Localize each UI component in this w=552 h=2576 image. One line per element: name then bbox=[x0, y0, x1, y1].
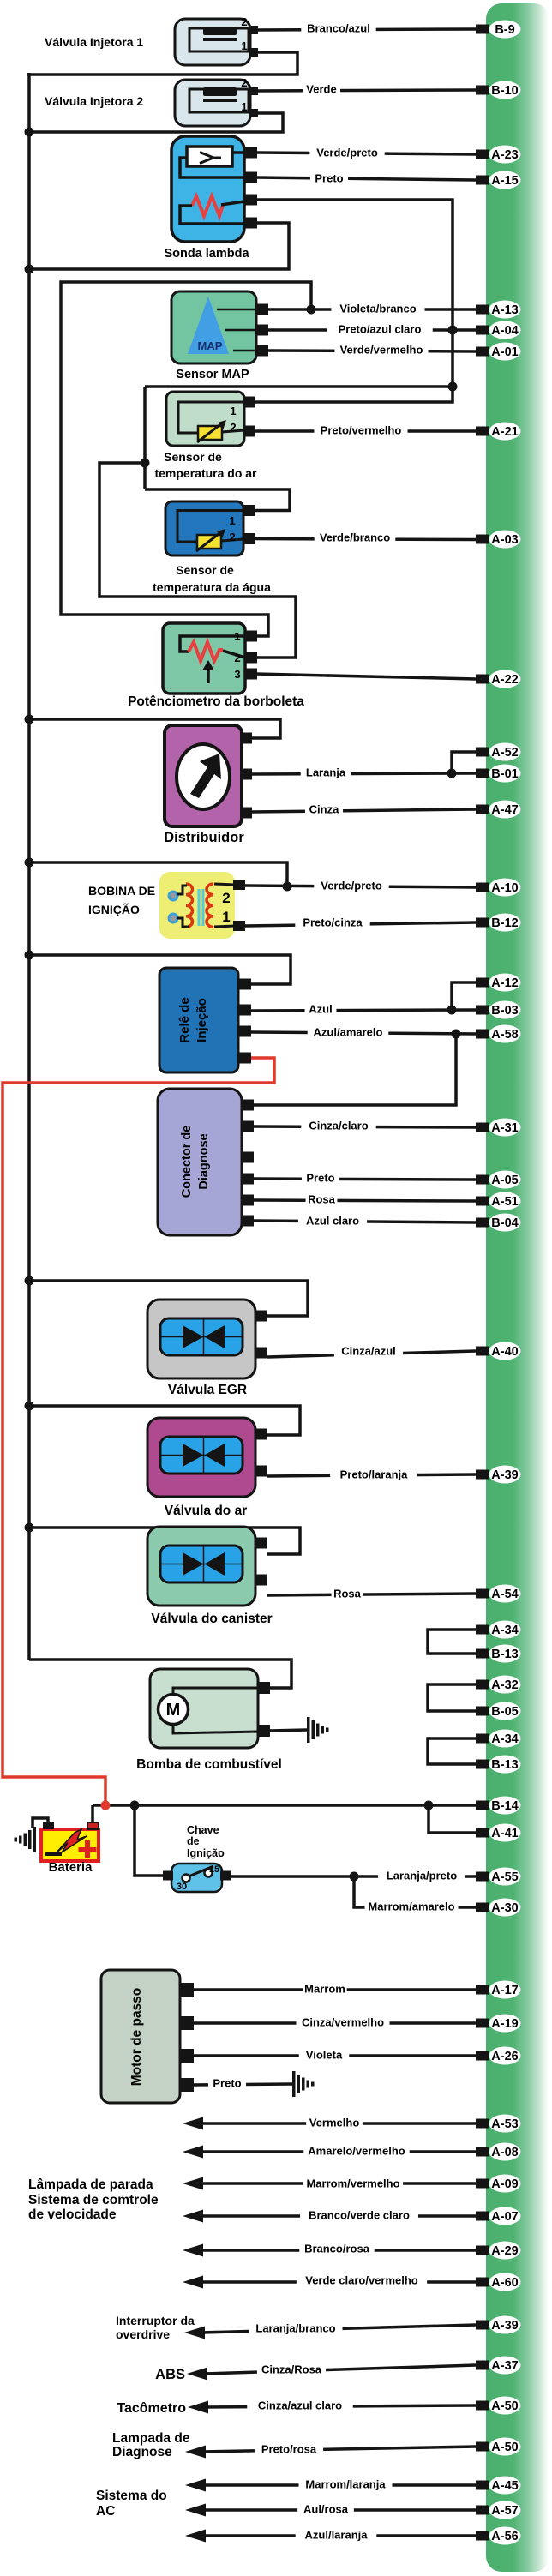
svg-text:Laranja: Laranja bbox=[306, 766, 346, 779]
junction bus / distribuidor bbox=[25, 715, 34, 724]
node A-05 (ECU pin) bbox=[476, 1175, 489, 1185]
bottom pin of bomba bbox=[258, 1725, 270, 1737]
node A-40 (ECU pin) bbox=[476, 1347, 489, 1356]
wire Sonda lambda pin 4 to bus bbox=[29, 223, 289, 269]
wire Conector pin 6 to B-04 (Azul claro) bbox=[253, 1221, 476, 1222]
svg-text:1: 1 bbox=[241, 100, 247, 113]
wire A-58 branch down to Conector pin 1 bbox=[253, 1034, 456, 1105]
wire label Azul/amarelo bbox=[308, 1025, 389, 1039]
svg-text:B-12: B-12 bbox=[491, 916, 518, 930]
battery bolt symbol bbox=[55, 1829, 87, 1854]
wire label Cinza/claro bbox=[301, 1119, 375, 1132]
wire Motor de passo pin 1 to A-17 (Marrom) bbox=[192, 1988, 476, 1991]
wire Valvula do ar bottom pin to A-39 (Preto/laranja) bbox=[267, 1474, 476, 1476]
wire x169 net bottom to water temp pin 1 bbox=[145, 489, 290, 511]
pin 6 of conector de diagnose bbox=[242, 1216, 254, 1227]
wire label Preto bbox=[302, 1171, 339, 1185]
wire Bobina pin 2 to A-10 (Verde/preto) bbox=[245, 886, 476, 887]
component Potenciometro da borboleta (throttle potentiometer) bbox=[163, 623, 245, 694]
node B-9 (ECU pin) bbox=[476, 25, 489, 34]
right pin of chave bbox=[220, 1871, 231, 1881]
junction x528 / x169 net bbox=[448, 382, 458, 392]
wire Valvula EGR bottom pin to A-40 (Cinza/azul) bbox=[267, 1351, 476, 1357]
svg-text:B-01: B-01 bbox=[491, 767, 518, 781]
svg-text:Verde/preto: Verde/preto bbox=[321, 880, 382, 892]
node A-34 (ECU pin) bbox=[476, 1734, 489, 1744]
node A-29 (ECU pin) bbox=[476, 2246, 489, 2255]
wire bus to Rele pin 1 bbox=[29, 955, 291, 984]
svg-text:B-03: B-03 bbox=[491, 1004, 518, 1018]
svg-text:Sensor de: Sensor de bbox=[164, 450, 222, 464]
svg-text:A-22: A-22 bbox=[491, 673, 518, 687]
pin 2 of sensor MAP bbox=[256, 325, 268, 336]
svg-text:A-54: A-54 bbox=[491, 1588, 518, 1601]
top pin of Válvula do canister bbox=[255, 1538, 267, 1549]
svg-text:Preto/azul claro: Preto/azul claro bbox=[339, 323, 422, 336]
component Rele de Injecao (injection relay) bbox=[159, 968, 238, 1072]
component Distribuidor (distributor) bbox=[165, 725, 242, 826]
node A-21 (ECU pin) bbox=[476, 427, 489, 436]
wire x117 branch to potentiometer pin 2 bbox=[99, 463, 296, 658]
component Válvula Injetora 1 bbox=[175, 19, 250, 65]
valve bowtie symbol (Válvula do canister) bbox=[183, 1552, 204, 1576]
wire label Amarelo/vermelho bbox=[303, 2144, 409, 2158]
wire Distribuidor pin 3 to A-47 (Cinza) bbox=[252, 809, 476, 812]
component Bobina de Ignicao (ignition coil) bbox=[159, 872, 235, 939]
junction bus / canister feed bbox=[25, 1523, 34, 1533]
wire label Verde/vermelho bbox=[334, 343, 428, 357]
bottom pin of Válvula EGR bbox=[255, 1348, 267, 1359]
svg-text:A-07: A-07 bbox=[491, 2210, 518, 2224]
pin 3 of sensor MAP bbox=[256, 345, 268, 357]
svg-text:A-57: A-57 bbox=[491, 2504, 518, 2518]
svg-text:A-17: A-17 bbox=[491, 1984, 518, 1997]
junction battery / red supply bbox=[101, 1801, 111, 1810]
svg-text:A-45: A-45 bbox=[491, 2479, 518, 2493]
svg-text:A-19: A-19 bbox=[491, 2017, 518, 2031]
junction bus / rele feed bbox=[25, 951, 34, 960]
wire label Rosa bbox=[332, 1587, 363, 1600]
node A-41 (ECU pin) bbox=[476, 1828, 489, 1838]
wire sonda internal pin1 lead bbox=[232, 151, 244, 154]
svg-text:A-31: A-31 bbox=[491, 1121, 518, 1135]
wire Sensor MAP pin 2 to A-04 (Preto/azul claro) bbox=[267, 328, 476, 332]
node A-08 (ECU pin) bbox=[476, 2147, 489, 2157]
junction bus / bobina feed bbox=[25, 858, 34, 868]
wire Valvula Injetora 1 pin 2 to B-9 bbox=[254, 29, 476, 30]
svg-text:BOBINA DE: BOBINA DE bbox=[88, 884, 155, 898]
pin 1 of bobina bbox=[233, 921, 245, 931]
wire output arrow (Verde claro/vermelho to A-60) bbox=[200, 2280, 476, 2284]
node A-54 (ECU pin) bbox=[476, 1589, 489, 1599]
wire label Marrom bbox=[303, 1982, 346, 1996]
node A-52 (ECU pin) bbox=[476, 748, 489, 757]
svg-text:A-32: A-32 bbox=[491, 1678, 518, 1692]
svg-text:A-51: A-51 bbox=[491, 1195, 518, 1209]
pin 1 of Válvula Injetora 1 bbox=[250, 48, 258, 57]
node A-26 (ECU pin) bbox=[476, 2051, 489, 2061]
svg-text:Bateria: Bateria bbox=[49, 1860, 93, 1875]
wire label Branco/verde claro bbox=[300, 2208, 418, 2222]
wire label Branco/rosa bbox=[299, 2242, 374, 2255]
svg-text:Verde/branco: Verde/branco bbox=[320, 531, 390, 544]
wire Bobina pin 1 to B-12 (Preto/cinza) bbox=[245, 922, 476, 926]
wire red battery supply to Rele pin 4 bbox=[3, 1058, 274, 1805]
wire battery post link bbox=[91, 1805, 94, 1823]
top pin of Válvula do ar bbox=[255, 1429, 267, 1440]
svg-text:A-09: A-09 bbox=[491, 2177, 518, 2191]
pin 1 of Válvula Injetora 2 bbox=[250, 109, 258, 117]
wire label Preto/laranja bbox=[330, 1468, 417, 1481]
pin 3 of motor de passo bbox=[180, 2049, 194, 2063]
svg-text:Chave: Chave bbox=[187, 1824, 219, 1836]
svg-text:Violeta/branco: Violeta/branco bbox=[339, 303, 416, 315]
node B-04 (ECU pin) bbox=[476, 1218, 489, 1228]
svg-text:overdrive: overdrive bbox=[116, 2327, 170, 2341]
junction battery rail / ignition switch branch bbox=[130, 1801, 140, 1810]
svg-text:Preto: Preto bbox=[306, 1172, 334, 1185]
pin 1 of sensor temperatura da agua bbox=[243, 505, 255, 516]
wiper arrow (potentiometer) bbox=[207, 668, 210, 683]
wire label Vermelho bbox=[306, 2116, 363, 2129]
node A-47 (ECU pin) bbox=[476, 805, 489, 814]
wire output arrow (Marrom/vermelho to A-09) bbox=[200, 2182, 476, 2185]
pin 2 of rele bbox=[238, 1005, 251, 1016]
pin 4 of motor de passo bbox=[180, 2078, 194, 2092]
ECU connector bar (green gradient) bbox=[486, 3, 549, 2572]
wire Distribuidor pin 2 to B-01 (Laranja) bbox=[252, 773, 476, 774]
wire label Preto bbox=[310, 171, 348, 185]
svg-text:Conector de: Conector de bbox=[180, 1126, 194, 1198]
bottom pin of Válvula do ar bbox=[255, 1466, 267, 1477]
svg-text:A-53: A-53 bbox=[491, 2117, 518, 2131]
wire secondary leads (bobina) bbox=[214, 884, 235, 885]
node A-30 (ECU pin) bbox=[476, 1903, 489, 1912]
battery plus sign bbox=[79, 1847, 97, 1852]
wire Valvula Injetora 2 pin 2 to B-10 bbox=[254, 90, 476, 91]
svg-text:Sensor de: Sensor de bbox=[176, 563, 234, 577]
node A-32 (ECU pin) bbox=[476, 1680, 489, 1690]
wire sonda internal pin4 loop bbox=[180, 206, 244, 224]
node A-60 (ECU pin) bbox=[476, 2278, 489, 2287]
svg-text:2: 2 bbox=[229, 531, 235, 543]
wire label Branco/azul bbox=[301, 21, 375, 35]
svg-text:Azul/laranja: Azul/laranja bbox=[305, 2529, 369, 2542]
svg-text:A-10: A-10 bbox=[491, 881, 518, 895]
node A-55 (ECU pin) bbox=[476, 1872, 489, 1882]
node A-51 (ECU pin) bbox=[476, 1197, 489, 1206]
svg-text:1: 1 bbox=[234, 630, 240, 643]
svg-text:2: 2 bbox=[230, 421, 236, 434]
svg-text:Relê de: Relê de bbox=[177, 997, 192, 1042]
wire label Verde/preto bbox=[314, 879, 388, 892]
pin 5 of conector de diagnose bbox=[242, 1195, 254, 1206]
wire label Verde bbox=[303, 82, 340, 96]
pin 3 of potenciometro bbox=[245, 669, 257, 680]
svg-text:de: de bbox=[187, 1835, 200, 1847]
wire output arrow (Vermelho to A-53) bbox=[200, 2122, 476, 2125]
svg-text:Rosa: Rosa bbox=[333, 1588, 362, 1600]
svg-text:A-40: A-40 bbox=[491, 1345, 518, 1359]
node B-12 (ECU pin) bbox=[476, 918, 489, 928]
pin 2 of Válvula Injetora 1 bbox=[250, 26, 258, 34]
component Válvula Injetora 2 bbox=[175, 80, 250, 126]
svg-text:A-37: A-37 bbox=[491, 2359, 518, 2373]
node B-10 (ECU pin) bbox=[476, 86, 489, 95]
node B-05 (ECU pin) bbox=[476, 1707, 489, 1716]
battery negative post bbox=[43, 1822, 54, 1829]
svg-text:Sonda lambda: Sonda lambda bbox=[164, 247, 249, 261]
wire label Violeta/branco bbox=[331, 302, 424, 315]
svg-text:Verde/preto: Verde/preto bbox=[316, 147, 378, 159]
wire ignition switch feed bbox=[135, 1805, 165, 1876]
svg-text:Injeção: Injeção bbox=[195, 998, 209, 1042]
pin 2 of sonda lambda bbox=[244, 172, 257, 183]
svg-text:3: 3 bbox=[234, 668, 240, 681]
junction bus / EGR feed bbox=[25, 1276, 34, 1286]
wire label Preto bbox=[208, 2076, 246, 2090]
ground symbol (motor de passo) bbox=[292, 2071, 296, 2097]
svg-text:Marrom/amarelo: Marrom/amarelo bbox=[368, 1900, 454, 1913]
junction bus / injetora 2 bbox=[25, 128, 34, 137]
node A-10 (ECU pin) bbox=[476, 883, 489, 892]
node A-13 (ECU pin) bbox=[476, 305, 489, 315]
motor symbol M (bomba) bbox=[159, 1695, 189, 1725]
svg-text:15: 15 bbox=[209, 1864, 219, 1875]
wire label Aul/rosa bbox=[297, 2502, 354, 2516]
valve bowtie symbol (Válvula do ar) bbox=[183, 1444, 204, 1467]
wire Sonda lambda pin 3 to x528 net bbox=[254, 200, 453, 402]
junction bus / sonda pin4 bbox=[25, 265, 34, 274]
svg-text:A-23: A-23 bbox=[491, 148, 518, 162]
wire Valvula Injetora 2 pin 1 to bus bbox=[29, 113, 283, 132]
node A-23 (ECU pin) bbox=[476, 150, 489, 159]
svg-text:A-52: A-52 bbox=[491, 746, 518, 760]
node A-31 (ECU pin) bbox=[476, 1123, 489, 1132]
junction x528 / A-04 wire bbox=[448, 326, 458, 335]
svg-text:temperatura do ar: temperatura do ar bbox=[154, 466, 257, 480]
wire bus to Valvula EGR top pin bbox=[29, 1281, 308, 1316]
pin 1 of sonda lambda bbox=[244, 147, 257, 159]
svg-text:ABS: ABS bbox=[155, 2367, 185, 2382]
pin 1 of distribuidor bbox=[241, 733, 252, 744]
wire Motor de passo pin 2 to A-19 (Cinza/vermelho) bbox=[192, 2021, 476, 2025]
svg-text:Cinza/azul: Cinza/azul bbox=[341, 1345, 396, 1358]
node A-17 (ECU pin) bbox=[476, 1985, 489, 1995]
pin 1 of rele bbox=[238, 979, 251, 990]
node A-50 (ECU pin) bbox=[476, 2401, 489, 2411]
wire output arrow (Laranja/branco to A-39) bbox=[201, 2325, 476, 2333]
wire Motor de passo pin 4 (Preto) to ground bbox=[192, 2084, 292, 2085]
svg-text:B-13: B-13 bbox=[491, 1648, 518, 1661]
wire bus to Valvula do canister top pin bbox=[29, 1528, 300, 1554]
wire label Cinza/Rosa bbox=[257, 2363, 326, 2376]
svg-text:1: 1 bbox=[229, 514, 235, 527]
svg-text:A-05: A-05 bbox=[491, 1174, 518, 1187]
pin 2 of motor de passo bbox=[180, 2016, 194, 2030]
wire Distribuidor pin 1 to bus bbox=[29, 719, 280, 738]
svg-text:Lâmpada de parada: Lâmpada de parada bbox=[28, 2177, 153, 2192]
component Sensor MAP bbox=[171, 291, 256, 363]
node B-14 (ECU pin) bbox=[476, 1801, 489, 1810]
svg-text:A-01: A-01 bbox=[491, 345, 518, 359]
resistor (potentiometer track) bbox=[189, 642, 223, 661]
node A-04 (ECU pin) bbox=[476, 326, 489, 335]
component Chave de Ignicao (ignition switch) bbox=[171, 1864, 222, 1892]
svg-text:B-10: B-10 bbox=[491, 84, 518, 98]
svg-text:Cinza/vermelho: Cinza/vermelho bbox=[302, 2016, 384, 2029]
svg-text:A-34: A-34 bbox=[491, 1624, 518, 1637]
svg-text:30: 30 bbox=[177, 1882, 187, 1892]
wire output arrow (Preto/rosa to A-50) bbox=[202, 2447, 476, 2452]
wire output arrow (Amarelo/vermelho to A-08) bbox=[200, 2150, 476, 2153]
svg-text:A-58: A-58 bbox=[491, 1028, 518, 1042]
svg-text:Preto/rosa: Preto/rosa bbox=[261, 2443, 317, 2456]
wire label Verde/branco bbox=[315, 531, 396, 544]
svg-text:Potênciometro da borboleta: Potênciometro da borboleta bbox=[128, 694, 304, 709]
svg-text:A-47: A-47 bbox=[491, 803, 518, 817]
wire Conector pin 4 to A-05 (Preto) bbox=[253, 1179, 476, 1180]
pin 3 of distribuidor bbox=[241, 808, 252, 819]
wire label Cinza/azul claro bbox=[247, 2399, 352, 2412]
wire Conector pin 5 to A-51 (Rosa) bbox=[253, 1200, 476, 1201]
component Válvula EGR bbox=[147, 1300, 255, 1378]
svg-text:Bomba de combustível: Bomba de combustível bbox=[136, 1757, 282, 1772]
pin 4 of rele (supply) bbox=[238, 1053, 251, 1064]
switch contacts (chave) bbox=[183, 1875, 190, 1882]
node A-19 (ECU pin) bbox=[476, 2019, 489, 2028]
wire Bomba bottom pin to ground bbox=[270, 1730, 307, 1731]
svg-text:B-9: B-9 bbox=[495, 23, 514, 37]
svg-text:Cinza/claro: Cinza/claro bbox=[309, 1120, 368, 1132]
pin 2 of sensor temperatura da agua bbox=[243, 533, 255, 544]
svg-text:Lampada de: Lampada de bbox=[112, 2431, 190, 2446]
wire Motor de passo pin 3 to A-26 (Violeta) bbox=[192, 2054, 476, 2057]
svg-text:A-08: A-08 bbox=[491, 2146, 518, 2159]
wire bus2 (x=71) MAP feed bbox=[61, 282, 311, 636]
wire Valvula do canister bottom pin to A-54 (Rosa) bbox=[267, 1594, 476, 1595]
svg-text:Preto/cinza: Preto/cinza bbox=[303, 916, 363, 929]
svg-text:Preto: Preto bbox=[213, 2077, 241, 2090]
svg-text:B-13: B-13 bbox=[491, 1758, 518, 1772]
wire output arrow (Cinza/azul claro to A-50) bbox=[205, 2405, 476, 2407]
wire potentiometer pin1 loop bbox=[180, 636, 245, 652]
wire bus to Valvula do ar top pin bbox=[29, 1406, 300, 1435]
wire battery positive rail to B-14 bbox=[93, 1804, 476, 1807]
wire bus end to Bomba top pin bbox=[29, 1660, 291, 1688]
component Bomba de combustivel (fuel pump) bbox=[150, 1669, 258, 1748]
node A-39 (ECU pin) bbox=[476, 2321, 489, 2330]
wire label Azul/laranja bbox=[296, 2528, 377, 2542]
svg-text:Verde claro/vermelho: Verde claro/vermelho bbox=[305, 2274, 418, 2287]
svg-text:B-04: B-04 bbox=[491, 1216, 518, 1230]
wire label Marrom/amarelo bbox=[364, 1900, 458, 1913]
wire label Verde/preto bbox=[309, 146, 384, 159]
wire Conector pin 2 to A-31 (Cinza/claro) bbox=[253, 1126, 476, 1127]
svg-text:B-05: B-05 bbox=[491, 1705, 518, 1719]
component Válvula do canister bbox=[147, 1527, 255, 1606]
svg-text:Sistema de comtrole: Sistema de comtrole bbox=[28, 2193, 159, 2207]
switch lever (chave) bbox=[189, 1866, 213, 1876]
battery positive post bbox=[87, 1822, 99, 1829]
node A-39 (ECU pin) bbox=[476, 1470, 489, 1480]
node A-03 (ECU pin) bbox=[476, 535, 489, 544]
node A-56 (ECU pin) bbox=[476, 2531, 489, 2541]
svg-text:Azul: Azul bbox=[309, 1003, 332, 1016]
wire primary leads (bobina) bbox=[177, 886, 187, 894]
node A-58 (ECU pin) bbox=[476, 1030, 489, 1039]
svg-text:Ignição: Ignição bbox=[187, 1847, 225, 1859]
pin 2 of bobina bbox=[233, 880, 245, 890]
svg-text:Azul claro: Azul claro bbox=[306, 1215, 359, 1228]
node A-45 (ECU pin) bbox=[476, 2481, 489, 2490]
svg-text:Válvula Injetora 1: Válvula Injetora 1 bbox=[45, 35, 143, 49]
component Bateria (battery) bbox=[41, 1829, 99, 1861]
svg-text:Válvula Injetora 2: Válvula Injetora 2 bbox=[45, 94, 143, 108]
ground symbol (bateria) bbox=[33, 1827, 37, 1852]
ground symbol (bomba de combustivel) bbox=[307, 1717, 310, 1743]
wire Sensor MAP pin 3 to A-01 (Verde/vermelho) bbox=[267, 351, 476, 351]
pin 2 of potenciometro bbox=[245, 652, 257, 664]
node B-13 (ECU pin) bbox=[476, 1760, 489, 1769]
svg-text:A-55: A-55 bbox=[491, 1870, 518, 1884]
pin 1 of sensor temperatura do ar bbox=[244, 397, 255, 408]
wire Sensor temperatura do ar pin 2 to A-21 (Preto/vermelho) bbox=[255, 429, 476, 433]
left pin of chave bbox=[163, 1871, 173, 1881]
pin 1 of sensor MAP bbox=[256, 304, 268, 315]
wire Sonda lambda pin 2 to A-15 (Preto) bbox=[256, 177, 476, 180]
pin 2 of distribuidor bbox=[241, 769, 252, 780]
wire branch to A-41 bbox=[429, 1805, 476, 1833]
svg-text:Verde/vermelho: Verde/vermelho bbox=[340, 344, 423, 357]
rotor arrow (distribuidor) bbox=[190, 754, 221, 798]
wire bracket A-34/B-13 (2) bbox=[428, 1738, 476, 1764]
wire bus negative rail (x=34 vertical) bbox=[27, 73, 31, 1660]
primary terminal dots (bobina) bbox=[169, 892, 177, 900]
svg-text:A-41: A-41 bbox=[491, 1827, 518, 1840]
svg-text:Cinza/azul claro: Cinza/azul claro bbox=[258, 2399, 342, 2412]
svg-text:Marrom: Marrom bbox=[304, 1983, 345, 1996]
svg-text:AC: AC bbox=[96, 2504, 115, 2519]
svg-text:A-39: A-39 bbox=[491, 2319, 518, 2333]
svg-text:M: M bbox=[166, 1701, 181, 1720]
wire potentiometer track to pin 2 bbox=[223, 651, 245, 658]
svg-text:Laranja/preto: Laranja/preto bbox=[387, 1870, 457, 1882]
svg-text:2: 2 bbox=[222, 890, 230, 906]
wire output arrow (Branco/verde claro to A-07) bbox=[200, 2214, 476, 2218]
wire motor leads (bomba) bbox=[173, 1688, 258, 1696]
svg-text:A-13: A-13 bbox=[491, 303, 518, 317]
wire label Azul claro bbox=[298, 1214, 367, 1228]
svg-text:A-60: A-60 bbox=[491, 2276, 518, 2290]
svg-text:B-14: B-14 bbox=[491, 1799, 518, 1813]
wire bracket A-32/B-05 bbox=[428, 1684, 476, 1711]
primary winding (bobina) bbox=[186, 884, 193, 927]
svg-text:2: 2 bbox=[234, 652, 240, 664]
junction bobina pin2 / bus drop bbox=[283, 882, 292, 892]
wire bracket A-34/B-13 (1) bbox=[428, 1630, 476, 1654]
svg-text:temperatura da água: temperatura da água bbox=[153, 580, 271, 594]
wire label Laranja/preto bbox=[378, 1869, 465, 1882]
junction Laranja / A-52 branch bbox=[447, 769, 457, 778]
svg-text:Diagnose: Diagnose bbox=[112, 2445, 172, 2459]
component Conector de Diagnose (diagnostic connector) bbox=[158, 1089, 242, 1235]
valve bowtie symbol (Válvula EGR) bbox=[183, 1325, 204, 1348]
wire branch to A-52 bbox=[452, 752, 476, 773]
component Sonda lambda (oxygen sensor) bbox=[171, 136, 244, 242]
svg-text:Válvula do canister: Válvula do canister bbox=[151, 1612, 272, 1626]
bottom pin of Válvula do canister bbox=[255, 1575, 267, 1586]
